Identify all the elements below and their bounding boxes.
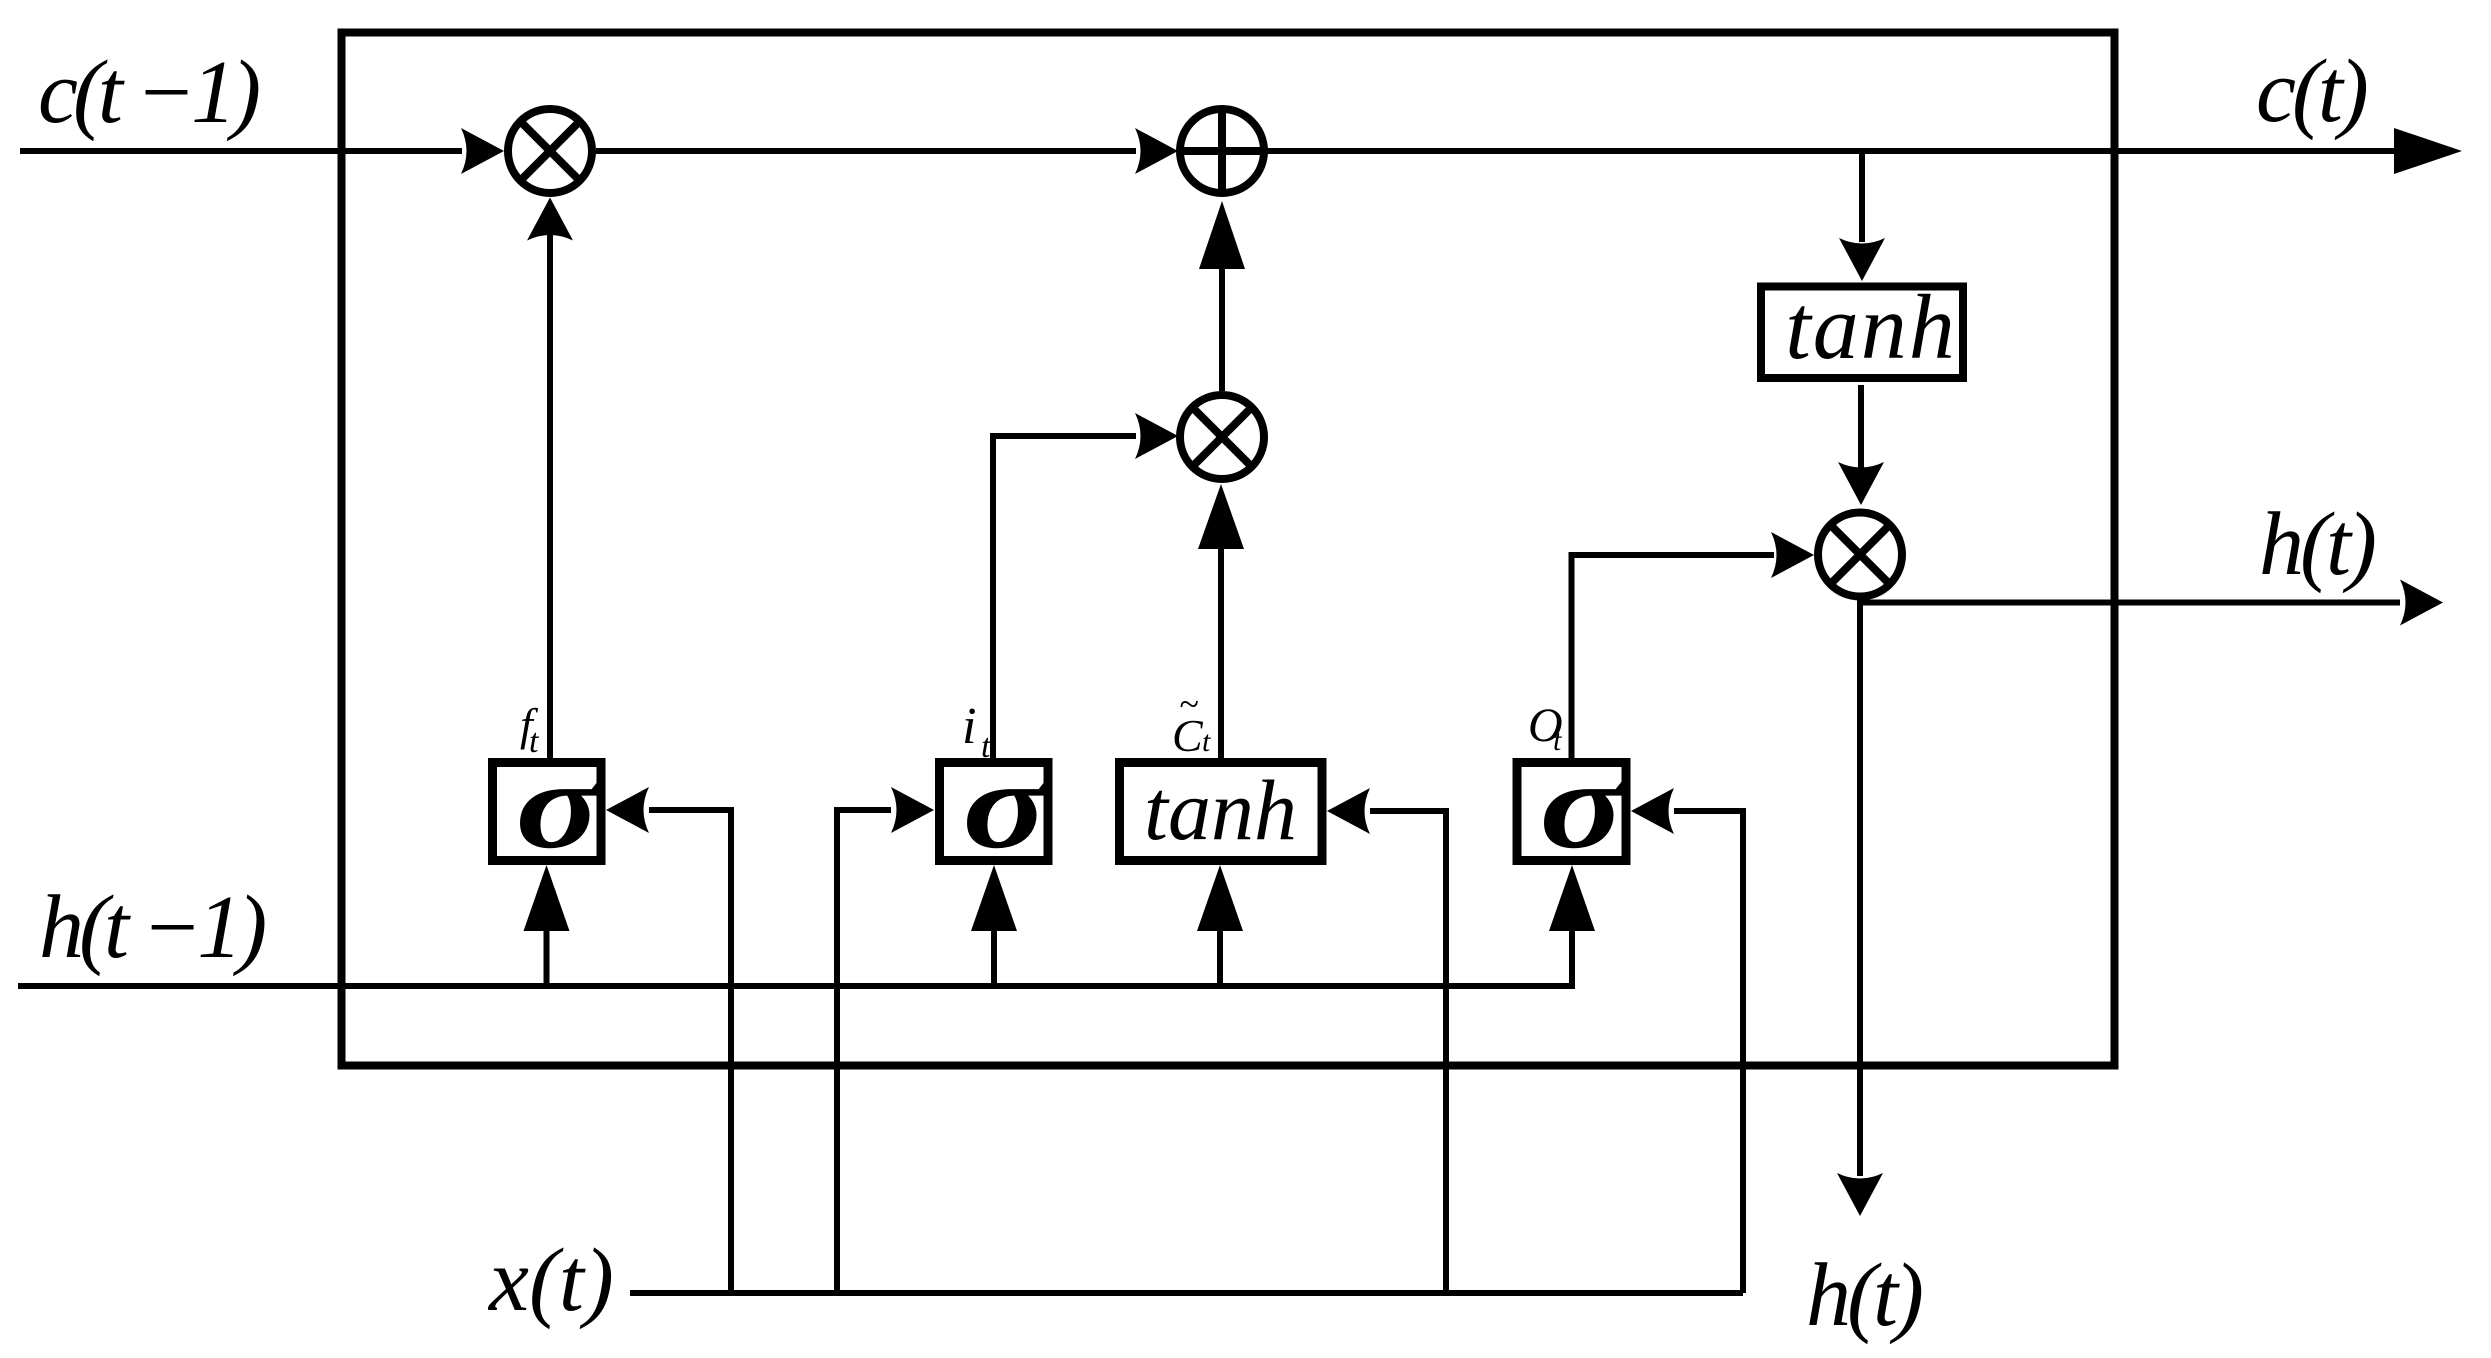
wire h(t) output to the right (1858, 600, 2400, 606)
arrowhead down into X3 top (1838, 462, 1884, 505)
svg-text:x(t): x(t) (487, 1231, 614, 1330)
wire from multiply node X2 up to add node (1219, 210, 1225, 391)
arrowhead into tanh1 right side (1327, 788, 1370, 834)
svg-text:σ: σ (1540, 736, 1629, 875)
wire x(t) feeder to sigma1 right side (649, 810, 731, 1293)
wire O_t riser from sigma3 to X3 left (1572, 555, 1775, 759)
tanh2 activation box (1761, 287, 1963, 379)
wire x(t) feeder to sigma3 right side (1674, 811, 1743, 1293)
arrowhead up into X2 bottom (1198, 484, 1244, 549)
wire drop from c-line down to tanh2 (1859, 154, 1865, 242)
svg-text:h(t −1): h(t −1) (39, 878, 265, 977)
svg-text:σ: σ (516, 736, 605, 875)
wire i_t riser from sigma2 to X2 left (993, 436, 1136, 759)
wire x(t) feeder to sigma2 left side (837, 810, 891, 1293)
arrowhead up into add node bottom (1199, 201, 1245, 269)
arrowhead up into sigma2 bottom (971, 865, 1017, 931)
arrowhead into sigma1 right side (606, 787, 649, 833)
arrowhead h(t) right output (2400, 580, 2443, 626)
svg-text:h(t): h(t) (1806, 1246, 1922, 1345)
wire x(t) input line (630, 1290, 1743, 1296)
wire f_t riser from sigma1 up to X1 (547, 210, 553, 759)
arrowhead up into tanh1 bottom (1197, 865, 1243, 931)
wire between multiply node and add node (596, 148, 1136, 154)
gate sigma1 (forget gate) box (493, 763, 602, 861)
svg-text:c(t): c(t) (2256, 42, 2367, 141)
svg-text:~: ~ (1179, 684, 1198, 724)
arrowhead up into X1 bottom (527, 198, 573, 241)
arrowhead into add node left (1135, 128, 1178, 174)
svg-text:h(t): h(t) (2259, 495, 2375, 594)
arrowhead into X1 left (461, 128, 504, 174)
svg-text:σ: σ (963, 736, 1052, 875)
arrowhead up into sigma3 bottom (1549, 865, 1595, 931)
arrowhead into X2 left (1135, 413, 1178, 459)
arrowhead into sigma3 right side (1631, 788, 1674, 834)
add node (cell state update) (1180, 109, 1264, 193)
arrowhead into sigma2 left side (891, 787, 934, 833)
gate sigma2 (input gate) box (940, 763, 1049, 861)
svg-text:c(t −1): c(t −1) (38, 43, 259, 142)
wire C~_t riser from tanh1 up to X2 bottom (1218, 492, 1224, 759)
wire add node to c(t) output (1265, 148, 2396, 154)
multiply node X2 (input gating) (1180, 395, 1264, 479)
multiply node X1 (forget gating) (508, 109, 592, 193)
arrowhead up into sigma1 bottom (524, 865, 570, 931)
arrowhead into X3 left (1771, 532, 1814, 578)
wire tanh2 down to X3 (1858, 385, 1864, 468)
arrowhead down into tanh2 top (1839, 238, 1885, 281)
wire stubs from h(t-1) line up to gate bottom arrows (544, 931, 550, 989)
wire h(t) output downward (1857, 600, 1863, 1176)
arrowhead h(t) down output (1837, 1173, 1883, 1216)
wire c(t-1) input segment (20, 148, 462, 154)
svg-text:tanh: tanh (1144, 762, 1297, 858)
arrowhead c(t) output triangle (2394, 128, 2462, 174)
gate sigma3 (output gate) box (1517, 763, 1626, 861)
wire x(t) feeder to tanh1 right side (1370, 811, 1446, 1293)
LSTM cell boundary box (342, 33, 2115, 1066)
gate tanh1 (candidate) box (1120, 763, 1323, 861)
wire h(t-1) input line with terminal corner at sigma3 (18, 931, 1572, 986)
svg-text:t: t (1202, 725, 1211, 758)
svg-text:tanh: tanh (1785, 276, 1957, 378)
multiply node X3 (output gating) (1818, 513, 1902, 597)
